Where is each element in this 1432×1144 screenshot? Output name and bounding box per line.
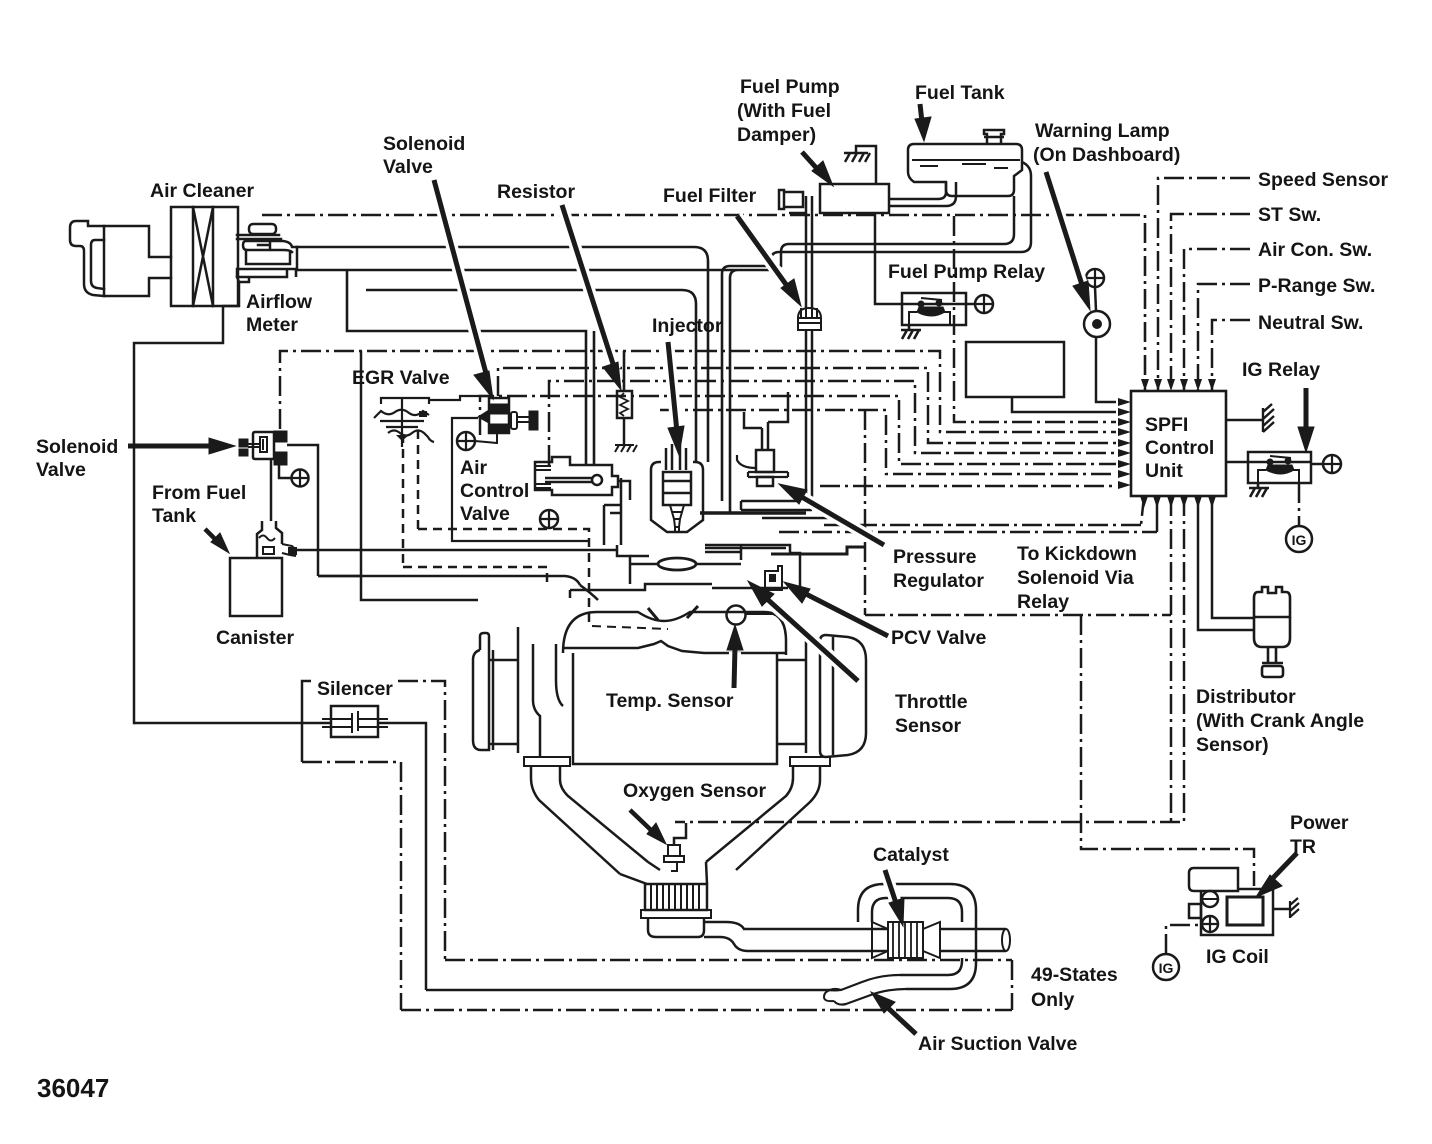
wire air con sw leader [1184, 249, 1250, 390]
svg-text:Solenoid: Solenoid [36, 436, 118, 458]
svg-text:TR: TR [1290, 836, 1316, 858]
pressure regulator flange [748, 472, 788, 477]
EGR valve junction dot [396, 435, 409, 441]
svg-text:Only: Only [1031, 989, 1074, 1011]
svg-text:PCV Valve: PCV Valve [891, 627, 987, 649]
arrow fuel filter label [737, 216, 790, 290]
svg-text:Control: Control [460, 480, 529, 502]
wire SPFI to distributor 1 [1198, 496, 1254, 630]
left head neck [480, 633, 489, 650]
airflow meter lower outlet [134, 282, 239, 723]
injector cup [651, 462, 703, 532]
wire connector box to SPFI [1012, 397, 1116, 412]
air suction valve pipe [830, 975, 906, 1005]
solenoid valve 2 stem [517, 417, 529, 422]
IG terminal circle 2 [1153, 954, 1179, 980]
wire solenoid1 to SPFI dash-dot [280, 351, 1116, 432]
fuel pump ground [844, 153, 870, 162]
SPFI left wire arrowheads [1118, 398, 1131, 406]
svg-text:SPFI: SPFI [1145, 414, 1188, 436]
carb body outline [617, 545, 800, 588]
IG coil small side square [1189, 904, 1201, 918]
wire SPFI right ground [1226, 419, 1263, 422]
temp sensor stem [746, 613, 792, 615]
solenoid valve 2 black bands [490, 404, 508, 432]
wire silencer outlet [378, 723, 426, 990]
fuel rail step line [762, 517, 845, 520]
arrow warning lamp label [1046, 172, 1083, 288]
svg-text:From Fuel: From Fuel [152, 482, 246, 504]
svg-text:To Kickdown: To Kickdown [1017, 543, 1137, 565]
svg-text:IG Coil: IG Coil [1206, 946, 1269, 968]
svg-text:IG Relay: IG Relay [1242, 359, 1320, 381]
exhaust collector [620, 862, 707, 884]
arrow pressure regulator label [800, 496, 884, 545]
silencer bracket vertical [301, 690, 304, 762]
arrow oxygen sensor label [630, 810, 653, 832]
right head capsule [820, 635, 866, 757]
fuel filter outlet down to rail [806, 330, 812, 510]
arrow fuel tank label [920, 104, 922, 122]
circle-cross left of ACV [457, 432, 475, 450]
PCV valve body [765, 566, 782, 590]
IG relay power circle-cross [1311, 463, 1323, 466]
catalyst drum [888, 922, 923, 958]
EGR valve stem [401, 398, 403, 447]
solenoid valve 1 shaft [248, 444, 260, 447]
IG terminal circle [1286, 526, 1312, 552]
IG relay ground [1249, 483, 1269, 497]
muffler outlet elbow [704, 922, 756, 951]
dashed ACV box vertical [417, 430, 420, 529]
SPFI bottom wire arrowheads [1140, 496, 1148, 508]
arrow air suction valve label [888, 1008, 916, 1034]
wire kickdown dash-dot [779, 531, 1157, 534]
exhaust downpipe left [531, 766, 648, 874]
wire vertical 865 dash-dot [864, 410, 867, 615]
muffler ribbed top [645, 884, 707, 910]
wire EGR area to SPFI [480, 396, 1116, 464]
exhaust downpipe right [706, 766, 820, 870]
svg-text:Air Cleaner: Air Cleaner [150, 180, 254, 202]
solenoid valve 2 body [489, 398, 509, 433]
throttle shaft [630, 563, 741, 566]
circle-cross below ACV [540, 510, 558, 528]
blank connector box [966, 342, 1064, 397]
svg-text:Fuel Tank: Fuel Tank [915, 82, 1005, 104]
svg-text:Air: Air [460, 457, 488, 479]
svg-text:Neutral Sw.: Neutral Sw. [1258, 312, 1363, 334]
throttle plate [658, 558, 696, 570]
arrow PCV valve label [806, 594, 888, 636]
wire speed sensor leader [1158, 178, 1250, 390]
wire regulator pipes to fuel bundle [744, 392, 788, 428]
wire kickdown vertical long [1170, 496, 1173, 822]
wire kickdown down to IG coil [1081, 615, 1254, 886]
wire ACV right to engine [618, 481, 630, 500]
EGR valve bracket [381, 398, 429, 404]
wire ACV to SPFI dash-dot [549, 381, 1116, 465]
oxygen sensor [664, 845, 684, 871]
SPFI top wire arrowheads [1118, 379, 1216, 508]
solenoid valve 2 needle left [478, 410, 489, 423]
svg-text:Fuel Filter: Fuel Filter [663, 185, 757, 207]
svg-text:Air Suction Valve: Air Suction Valve [918, 1033, 1077, 1055]
fuel pump bracket [856, 146, 876, 184]
fuel pump relay through wire [902, 303, 966, 306]
arrow fuel pump label [802, 152, 820, 172]
wire SPFI to catalyst line [675, 496, 1184, 822]
pressure regulator body [756, 450, 774, 486]
ACV rod end circle [592, 475, 602, 485]
wire resistor feed drop [623, 351, 626, 391]
fuel pump relay ground [901, 325, 921, 339]
svg-text:Silencer: Silencer [317, 678, 393, 700]
svg-text:Sensor): Sensor) [1196, 734, 1269, 756]
svg-text:Warning Lamp: Warning Lamp [1035, 120, 1170, 142]
air cleaner snorkel body [104, 226, 171, 296]
wire kickdown horizontal 614 [865, 614, 1171, 617]
wire 576 to engine [318, 575, 361, 578]
wire IG circle to coil [1166, 925, 1199, 954]
fuel rail double [741, 501, 812, 510]
warning lamp filament [1092, 319, 1102, 329]
svg-text:Resistor: Resistor [497, 181, 575, 203]
arrow resistor label [562, 205, 615, 370]
svg-text:IG: IG [1159, 960, 1174, 976]
wire lamp to power [1095, 287, 1096, 311]
svg-text:Meter: Meter [246, 314, 298, 336]
wire EGR column to head [361, 351, 478, 600]
wire canister supply line to engine [296, 549, 617, 552]
distributor shaft [1268, 647, 1276, 663]
svg-text:(With Crank Angle: (With Crank Angle [1196, 710, 1364, 732]
exhaust pipe to catalyst [756, 929, 888, 951]
warning lamp power circle-cross [1086, 269, 1104, 287]
catalyst bypass loop inner [872, 898, 962, 975]
silencer baffles [322, 711, 388, 733]
wire solenoid1 right to vertical [287, 445, 318, 576]
svg-text:ST Sw.: ST Sw. [1258, 204, 1321, 226]
resistor lead down [623, 418, 626, 445]
fuel filter line down [789, 196, 812, 308]
wire silencer bracket dashdot [302, 762, 401, 1010]
svg-text:(With Fuel: (With Fuel [737, 100, 831, 122]
svg-text:Speed Sensor: Speed Sensor [1258, 169, 1388, 191]
svg-text:Catalyst: Catalyst [873, 844, 949, 866]
IG relay coil [1266, 465, 1294, 474]
fuel tank body [908, 144, 1022, 196]
temp sensor circle [727, 606, 746, 625]
IG relay box [1248, 452, 1311, 483]
svg-text:Injector: Injector [652, 315, 723, 337]
wire long dash-dot into SPFI lower [820, 485, 1116, 488]
EGR valve diaphragm top [374, 410, 429, 418]
distributor body [1254, 617, 1290, 647]
left head body [473, 650, 518, 750]
thick line y554 [771, 547, 865, 554]
wire SPFI to y525 bus [820, 496, 1144, 525]
ground IG coil [1290, 898, 1299, 918]
svg-text:Tank: Tank [152, 505, 196, 527]
muffler body [648, 918, 704, 937]
engine intake elbow from silencer line [580, 585, 598, 600]
wire air duct inner from meter [366, 290, 696, 462]
right head inner line [832, 637, 835, 755]
arrow solenoid valve top label [434, 180, 487, 377]
IG coil body [1201, 889, 1273, 935]
injector body [663, 472, 691, 505]
wire silencer inlet [134, 722, 331, 725]
wire dash-dot top bus to SPFI [262, 215, 1145, 390]
svg-text:Control: Control [1145, 437, 1214, 459]
svg-text:Unit: Unit [1145, 460, 1183, 482]
fuel pump outlet pipe [889, 182, 956, 206]
carb base lines [570, 584, 788, 598]
svg-text:Relay: Relay [1017, 591, 1069, 613]
pressure regulator top pipes [762, 422, 768, 450]
spark marks [648, 606, 698, 620]
arrow solenoid valve left label [128, 444, 212, 449]
fuel tank cap [984, 130, 1004, 144]
SPFI control unit box [1131, 391, 1226, 496]
IG relay through wire [1248, 461, 1311, 464]
carb top step lines [630, 545, 786, 560]
SPFI bottom wires [675, 404, 1341, 886]
EGR valve mid plate [380, 421, 424, 427]
49 states bracket [1011, 960, 1014, 1010]
fuel tank fuel level [912, 160, 1020, 168]
muffler ribs [651, 884, 699, 910]
svg-text:Valve: Valve [460, 503, 510, 525]
svg-text:Valve: Valve [36, 459, 86, 481]
wire fuel line pair to engine [297, 266, 771, 513]
arrow throttle sensor label [766, 598, 858, 681]
wire silencer label dashdot [398, 681, 445, 960]
carb float tower [604, 478, 621, 545]
air cleaner filter box [171, 207, 238, 306]
fuel pump relay coil [917, 307, 945, 316]
svg-text:Power: Power [1290, 812, 1349, 834]
airflow meter cone body [237, 247, 297, 282]
air cleaner snorkel hook [70, 221, 104, 296]
solenoid valve 1 body [253, 432, 274, 459]
wire bottom solid [426, 989, 832, 992]
svg-text:(On Dashboard): (On Dashboard) [1033, 144, 1180, 166]
tail pipe end [1002, 929, 1010, 951]
airflow meter sensor fitting [243, 241, 270, 250]
air control valve body [535, 457, 618, 495]
airflow meter flange [237, 235, 281, 239]
ground SPFI right [1263, 404, 1274, 432]
exhaust flange right [790, 757, 830, 766]
oxygen sensor lead [674, 823, 686, 845]
solenoid valve 1 left connector [239, 439, 248, 456]
canister body [230, 558, 282, 616]
wire IG relay to IG circle [1298, 483, 1301, 526]
right head [777, 627, 806, 753]
tail pipe [940, 929, 1006, 951]
air suction valve lip [824, 990, 841, 1001]
catalyst inlet cone [872, 922, 888, 958]
air cleaner filter element with X [193, 207, 213, 306]
wire neutral sw leader [1212, 320, 1250, 390]
svg-text:Fuel Pump Relay: Fuel Pump Relay [888, 261, 1045, 283]
arrow IG relay label [1304, 388, 1309, 430]
svg-text:Solenoid: Solenoid [383, 133, 465, 155]
svg-text:Distributor: Distributor [1196, 686, 1296, 708]
wire nested bus drop [296, 269, 594, 465]
svg-text:Sensor: Sensor [895, 715, 962, 737]
canister elbow to supply line [282, 544, 296, 556]
injector top pins [666, 444, 686, 470]
resistor zigzag [620, 393, 628, 416]
fuel pump body [820, 184, 889, 213]
exhaust flange left [524, 757, 570, 766]
svg-text:Solenoid Via: Solenoid Via [1017, 567, 1134, 589]
solenoid valve 1 plunger [260, 437, 267, 452]
catalyst loop outer [858, 884, 976, 989]
dashed ACV box horizontal [418, 529, 589, 628]
regulator vacuum elbow [737, 455, 756, 468]
IG coil top connector [1189, 868, 1238, 891]
fuel pump relay contacts [919, 302, 924, 307]
arrow casings (white under-strokes) [434, 172, 1083, 906]
dashed EGR line vertical left [402, 434, 405, 567]
dashed EGR horizontal to engine [403, 567, 547, 587]
svg-text:Airflow: Airflow [246, 291, 313, 313]
svg-text:Valve: Valve [383, 156, 433, 178]
IG coil terminal circle top [1202, 891, 1218, 907]
wire engine supply line 2 [318, 576, 580, 585]
power TR box [1227, 897, 1263, 925]
IG relay coil legs [1258, 470, 1299, 483]
fuel filter inlet fitting [779, 190, 803, 209]
airflow meter nozzle [272, 241, 297, 252]
wire ST sw leader [1171, 214, 1250, 390]
fuel pump relay feed [875, 213, 902, 304]
warning lamp circle [1084, 311, 1110, 337]
svg-text:Air Con. Sw.: Air Con. Sw. [1258, 239, 1372, 261]
resistor body [617, 391, 632, 418]
wire EGR to solenoid2 [429, 396, 488, 400]
IG coil circle-cross terminal [1202, 916, 1218, 932]
wire bottom dashed to 49states [445, 959, 1012, 962]
svg-text:P-Range Sw.: P-Range Sw. [1258, 275, 1375, 297]
arrow catalyst label [885, 870, 897, 906]
wire SPFI to IG relay [1226, 461, 1248, 464]
arrow injector label [668, 342, 677, 432]
airflow meter top fitting [249, 224, 276, 234]
silencer body [331, 706, 378, 737]
svg-text:Pressure: Pressure [893, 546, 977, 568]
catalyst outlet cone [923, 922, 940, 958]
catalyst ribs [893, 922, 917, 958]
circle-cross below solenoid1 [279, 465, 291, 478]
valve cover top [563, 612, 786, 655]
wire lamp to SPFI [1096, 337, 1116, 402]
svg-text:Regulator: Regulator [893, 570, 984, 592]
injector nozzle [670, 505, 684, 532]
svg-text:EGR Valve: EGR Valve [352, 367, 450, 389]
svg-text:Fuel Pump: Fuel Pump [740, 76, 840, 98]
wire IG coil to ground [1273, 908, 1290, 911]
EGR valve diaphragm lower [388, 431, 434, 443]
wire air duct from airflow meter outer [297, 247, 708, 462]
ACV bolt stripes [536, 466, 551, 488]
solenoid valve 1 black tabs [274, 431, 287, 465]
svg-text:IG: IG [1292, 532, 1307, 548]
wire solenoid2 needle to carb [452, 418, 590, 541]
distributor cap [1254, 587, 1290, 617]
fuel pump relay box [902, 293, 966, 325]
svg-text:Damper): Damper) [737, 124, 816, 146]
svg-text:Temp. Sensor: Temp. Sensor [606, 690, 734, 712]
left head inner lines [493, 627, 518, 753]
ACV rod [545, 478, 592, 482]
engine block body [573, 653, 777, 764]
wire P-range sw leader [1198, 284, 1250, 390]
fuel pump relay coil legs [909, 312, 950, 325]
canister fitting wiggle [259, 536, 275, 555]
air cleaner snorkel hook inner [91, 240, 104, 289]
distributor base [1262, 663, 1283, 677]
wire solenoid1 down to canister [270, 459, 273, 521]
solenoid valve 2 right connector [511, 412, 517, 429]
wire solenoid2 to SPFI dash-dot [498, 368, 1116, 443]
IG relay contacts [1268, 460, 1273, 465]
svg-text:Canister: Canister [216, 627, 294, 649]
muffler flange [641, 910, 711, 918]
wire SPFI to distributor 2 [1212, 496, 1254, 618]
svg-text:Throttle: Throttle [895, 691, 968, 713]
arrow from fuel tank label [205, 529, 218, 542]
wire vertical resistor bus dash-dot [954, 216, 1116, 422]
junction dot at canister elbow [288, 547, 297, 555]
wire SPFI bottom 2 [1156, 496, 1159, 532]
fuel tank return loop [771, 162, 1031, 270]
valve cover bottom dimple [563, 641, 786, 653]
svg-text:Oxygen Sensor: Oxygen Sensor [623, 780, 766, 802]
svg-text:36047: 36047 [37, 1073, 109, 1103]
ground resistor [615, 445, 637, 452]
wire bottom dashdot [401, 1009, 1012, 1012]
PCV valve dot [769, 574, 776, 582]
canister inlet fitting [257, 521, 282, 558]
fuel filter body [798, 308, 821, 330]
block left mid tower [533, 644, 563, 757]
silencer bracket corner [302, 681, 311, 690]
fuel rail thick line [700, 511, 806, 514]
fuel pump relay power circle-cross [966, 303, 975, 306]
EGR valve side tab [419, 411, 427, 417]
svg-text:49-States: 49-States [1031, 964, 1118, 986]
arrow power TR label [1272, 853, 1297, 879]
fuel filter stripes [801, 306, 817, 318]
wire injector to SPFI [660, 410, 1116, 474]
solenoid valve 2 right black knob [529, 411, 538, 430]
valve cover EGR dashed [592, 626, 668, 629]
arrow temp sensor label [734, 647, 735, 688]
